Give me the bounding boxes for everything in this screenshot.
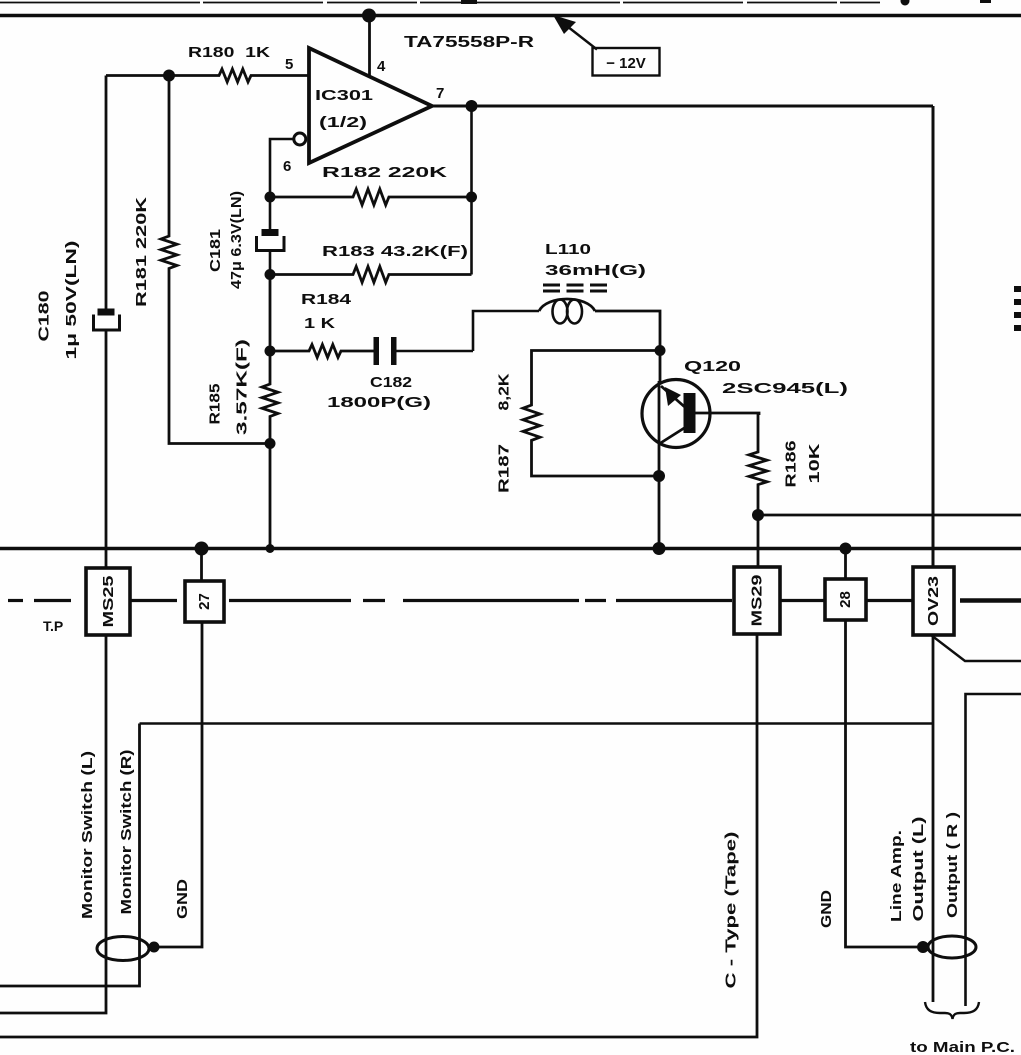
node R182 left junction	[265, 192, 276, 203]
wire C180 branch upper	[105, 76, 108, 310]
svg-text:1 K: 1 K	[304, 315, 335, 332]
svg-text:Line Amp.: Line Amp.	[889, 830, 905, 922]
wire pin6 to feedback node	[270, 139, 294, 197]
node bus junction 28	[840, 543, 852, 555]
wire Monitor Switch R	[0, 724, 140, 987]
wire pin 4 to supply	[368, 16, 371, 79]
node emitter junction	[653, 470, 665, 482]
resistor R184	[270, 345, 374, 358]
pin 6 inverting input bubble	[294, 133, 306, 145]
net -12V flag	[553, 15, 660, 76]
svg-text:− 12V: − 12V	[606, 55, 646, 72]
wire step up to L110	[473, 311, 539, 351]
cable bundle right	[928, 936, 976, 958]
node R185 bottom junction	[265, 438, 276, 449]
svg-text:6: 6	[283, 158, 291, 175]
svg-text:8,2K: 8,2K	[496, 373, 513, 410]
svg-text:MS29: MS29	[749, 575, 766, 627]
svg-text:R184: R184	[301, 291, 352, 308]
wire feedback vertical	[470, 106, 473, 275]
wire L110 to collector node	[595, 311, 660, 382]
wire R186 node to right edge	[758, 514, 1021, 517]
resistor R185 vertical	[262, 275, 278, 549]
svg-text:OV23: OV23	[925, 576, 942, 626]
node GND cable dot	[149, 942, 160, 953]
wire output down right side	[932, 106, 935, 567]
wire OV23 pointer	[931, 635, 1021, 661]
svg-text:(1/2): (1/2)	[319, 115, 367, 131]
wire C-Type (Tape)	[0, 634, 757, 1037]
connector MS25	[86, 568, 130, 635]
wire pin 7 output	[432, 105, 933, 108]
wire board dash-dot line	[8, 599, 1021, 602]
svg-text:R180 1K: R180 1K	[188, 45, 271, 61]
svg-text:GND: GND	[819, 890, 835, 928]
svg-text:R183 43.2K(F): R183 43.2K(F)	[322, 243, 468, 260]
resistor R180 with pin5 wire	[106, 69, 309, 82]
wire long horizontal link	[140, 722, 934, 725]
capacitor C180	[94, 309, 120, 331]
svg-text:R186: R186	[783, 441, 800, 488]
capacitor C181	[257, 197, 285, 275]
node junction R180/R181	[163, 70, 175, 82]
cable bundle left	[97, 937, 149, 961]
svg-text:GND: GND	[175, 879, 191, 919]
resistor R187 loop	[523, 351, 660, 477]
svg-text:10K: 10K	[806, 443, 823, 483]
svg-text:TA75558P-R: TA75558P-R	[404, 34, 534, 51]
svg-text:IC301: IC301	[315, 88, 373, 104]
inductor L110	[539, 284, 607, 324]
label C180 1u50V(LN)	[36, 240, 81, 359]
wire main horizontal bus	[0, 547, 1021, 551]
node pin4 junction on supply rail	[362, 9, 376, 23]
wire -12V supply rail (top bus)	[0, 14, 1021, 17]
svg-text:T.P: T.P	[43, 618, 63, 634]
svg-text:28: 28	[837, 591, 854, 608]
svg-text:1800P(G): 1800P(G)	[327, 394, 431, 411]
connector OV23	[913, 567, 954, 635]
svg-text:2SC945(L): 2SC945(L)	[722, 380, 848, 397]
svg-text:7: 7	[436, 85, 444, 102]
connector 28	[825, 579, 866, 620]
svg-text:Monitor Switch (R): Monitor Switch (R)	[119, 749, 135, 914]
connector 27	[185, 581, 224, 622]
svg-text:Output ( R ): Output ( R )	[945, 812, 961, 918]
connector MS29	[734, 567, 780, 634]
wire bus to connector 27	[200, 549, 203, 582]
svg-text:Output (L): Output (L)	[911, 816, 927, 921]
label C181 47u6.3V(LN)	[207, 191, 245, 289]
node collector junction	[655, 345, 666, 356]
wire Line Amp Output L	[932, 635, 935, 1002]
svg-text:R187: R187	[496, 444, 513, 493]
wire GND from 28	[846, 620, 925, 947]
resistor R181 vertical	[161, 76, 270, 444]
svg-text:R182 220K: R182 220K	[322, 164, 447, 181]
svg-text:47μ 6.3V(LN): 47μ 6.3V(LN)	[229, 191, 245, 289]
node GND cable dot right	[917, 941, 929, 953]
svg-text:C180: C180	[36, 291, 53, 342]
svg-text:to Main P.C.: to Main P.C.	[910, 1039, 1015, 1055]
svg-text:Monitor Switch (L): Monitor Switch (L)	[80, 751, 96, 919]
svg-text:L110: L110	[545, 241, 591, 258]
node R182 right junction	[466, 192, 477, 203]
svg-text:C181: C181	[207, 229, 224, 272]
node bus junction 27	[195, 542, 209, 556]
brace to Main P.C.	[925, 1002, 979, 1019]
transistor Q120	[642, 380, 710, 448]
node R184 left junction	[265, 346, 276, 357]
svg-text:5: 5	[285, 56, 293, 73]
wire bus to connector 28	[844, 549, 847, 580]
wire Output R	[966, 694, 1021, 1006]
wire emitter to bus	[658, 446, 661, 549]
svg-text:C182: C182	[370, 374, 412, 391]
svg-text:R181 220K: R181 220K	[133, 197, 150, 307]
svg-text:MS25: MS25	[100, 576, 117, 628]
svg-text:R185: R185	[207, 384, 224, 425]
node C181 bottom junction	[265, 269, 276, 280]
svg-text:4: 4	[377, 58, 386, 75]
wire base to R186	[696, 413, 760, 415]
resistor R183	[270, 267, 472, 283]
svg-text:1μ 50V(LN): 1μ 50V(LN)	[64, 240, 80, 359]
svg-text:3.57K(F): 3.57K(F)	[234, 339, 251, 435]
svg-text:Q120: Q120	[684, 358, 741, 375]
node bus junction R185	[266, 544, 275, 553]
svg-text:36mH(G): 36mH(G)	[545, 262, 646, 279]
wire thin top border line	[0, 0, 991, 6]
wire Monitor Switch L	[0, 635, 106, 1013]
label cut-off right edge text	[1014, 286, 1021, 331]
wire C180 branch lower to MS25	[105, 330, 108, 568]
svg-text:C - Type (Tape): C - Type (Tape)	[723, 832, 740, 989]
node R186 bottom junction	[752, 509, 764, 521]
resistor R186	[749, 412, 767, 567]
node output junction	[466, 100, 478, 112]
resistor R182	[270, 189, 472, 205]
capacitor C182	[374, 337, 474, 365]
node bus junction emitter	[653, 542, 666, 555]
svg-text:27: 27	[196, 593, 213, 610]
wire GND from 27	[155, 622, 202, 947]
op-amp U IC301 triangle	[309, 48, 432, 163]
